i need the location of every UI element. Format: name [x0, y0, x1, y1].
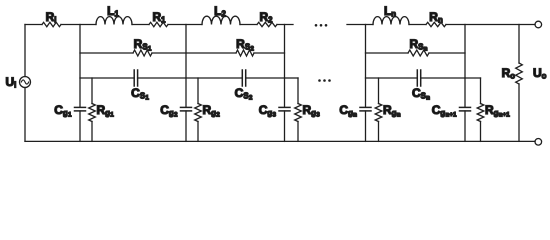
wire R1 to L2 (junction node 2) — [168, 24, 202, 26]
svg-text:Ri: Ri — [46, 10, 57, 25]
wire Csn left — [366, 77, 418, 79]
wire node 3 vertical lower — [284, 111, 286, 141]
wire Ri to L1 (junction node 1) — [61, 24, 96, 26]
wire Rsn right — [429, 52, 465, 54]
svg-text:Rn: Rn — [429, 10, 443, 25]
resistor Rs1 — [133, 50, 152, 56]
wire Rg3 lower — [297, 122, 299, 142]
wire Ro branch lower — [518, 84, 520, 141]
wire L1 to R1 — [132, 24, 149, 26]
inductor Ln — [373, 17, 409, 25]
svg-text:Rgn+1: Rgn+1 — [485, 103, 510, 119]
svg-text:Cg1: Cg1 — [54, 103, 72, 119]
wire node 4 vertical lower — [365, 111, 367, 141]
wire Rg2 upper — [197, 78, 199, 104]
svg-text:RS2: RS2 — [236, 37, 254, 53]
output terminal bottom — [535, 139, 542, 146]
resistor Rg1 — [89, 104, 96, 122]
svg-text:Cg3: Cg3 — [259, 103, 277, 119]
wire top rail resume to Ln (junction node 4) — [347, 24, 373, 26]
wire stub node to Rg3 — [285, 77, 299, 79]
svg-text:Rg3: Rg3 — [303, 103, 321, 119]
capacitor Cgn+1 — [460, 106, 471, 108]
svg-text:R2: R2 — [259, 10, 273, 25]
wire R2 past node 3 to break — [277, 24, 293, 26]
resistor Rn — [426, 22, 446, 26]
svg-text:Rgn: Rgn — [383, 103, 401, 119]
ellipsis middle row — [318, 79, 321, 82]
capacitor Cgn — [360, 106, 371, 108]
wire node 2 vertical lower — [185, 111, 187, 141]
wire node 2 vertical upper — [185, 25, 187, 108]
wire node 1 vertical lower — [79, 111, 81, 141]
wire left vertical upper — [24, 25, 26, 77]
svg-text:CS1: CS1 — [131, 86, 149, 102]
wire top rail corner to Ri — [25, 24, 42, 26]
svg-text:Rg1: Rg1 — [97, 103, 115, 119]
inductor L1 — [96, 17, 132, 25]
source Ui AC symbol — [20, 77, 31, 88]
wire Cs2 right — [246, 77, 285, 79]
svg-text:CSn: CSn — [412, 86, 430, 102]
wire Csn right — [421, 77, 465, 79]
svg-text:R1: R1 — [152, 10, 166, 25]
resistor Rg2 — [195, 104, 202, 122]
wire stub node to Rgn+1 — [465, 77, 481, 79]
wire Rs1 left — [80, 52, 133, 54]
wire Rs1 right — [152, 52, 186, 54]
resistor Rs2 — [236, 50, 254, 56]
resistor Rg3 — [295, 104, 302, 122]
resistor Rsn — [408, 50, 429, 56]
svg-text:Cgn: Cgn — [339, 103, 357, 119]
svg-text:CS2: CS2 — [235, 86, 253, 102]
wire node 3 vertical upper — [284, 25, 286, 108]
inductor L2 — [202, 16, 240, 24]
capacitor Cs1 — [133, 70, 135, 86]
svg-text:RS1: RS1 — [134, 37, 152, 53]
wire Cs1 left — [80, 77, 134, 79]
wire node 4 vertical upper — [365, 25, 367, 108]
svg-text:Ui: Ui — [6, 75, 17, 90]
wire Rs2 right — [254, 52, 285, 54]
wire L2 to R2 — [240, 24, 257, 26]
svg-text:Ro: Ro — [502, 66, 516, 81]
wire Rg1 lower — [91, 122, 93, 142]
resistor R1 — [149, 22, 168, 26]
svg-text:L2: L2 — [214, 4, 226, 19]
wire node 5 vertical lower — [464, 111, 466, 141]
resistor Ri — [42, 22, 61, 26]
wire Cs2 left — [186, 77, 242, 79]
wire Ro branch upper — [518, 25, 520, 64]
wire Ln to Rn — [409, 24, 426, 26]
wire Rgn upper — [378, 78, 380, 104]
capacitor Cg1 — [75, 106, 86, 108]
ellipsis top rail — [315, 24, 318, 27]
capacitor Cs2 — [241, 70, 243, 86]
wire node 5 vertical upper — [464, 25, 466, 108]
wire node 1 vertical upper — [79, 25, 81, 108]
svg-text:Cg2: Cg2 — [160, 103, 178, 119]
wire Rgn lower — [378, 122, 380, 142]
wire bottom rail — [25, 140, 535, 142]
wire Rgn+1 lower — [480, 122, 482, 142]
svg-text:Cgn+1: Cgn+1 — [432, 103, 457, 119]
capacitor Cg2 — [181, 106, 192, 108]
resistor R2 — [257, 22, 277, 26]
wire Rn to output terminal (junctions node 5, Ro tap) — [446, 24, 535, 26]
wire Rg2 lower — [197, 122, 199, 142]
wire Rgn+1 upper — [480, 78, 482, 104]
wire Cs1 right — [138, 77, 186, 79]
svg-text:RSn: RSn — [409, 37, 427, 53]
svg-text:Ln: Ln — [384, 4, 396, 19]
resistor Rgn+1 — [477, 104, 484, 122]
resistor Ro — [516, 63, 523, 84]
svg-text:L1: L1 — [107, 4, 119, 19]
output terminal top — [535, 21, 542, 28]
wire left vertical lower — [24, 88, 26, 142]
wire Rs2 left — [186, 52, 236, 54]
wire Rg1 upper — [91, 78, 93, 104]
wire Rg3 upper — [297, 78, 299, 104]
svg-text:Uo: Uo — [533, 66, 547, 81]
capacitor Csn — [416, 70, 418, 86]
svg-text:Rg2: Rg2 — [203, 103, 221, 119]
capacitor Cg3 — [279, 106, 290, 108]
resistor Rgn — [375, 104, 382, 122]
wire Rsn left — [366, 52, 409, 54]
